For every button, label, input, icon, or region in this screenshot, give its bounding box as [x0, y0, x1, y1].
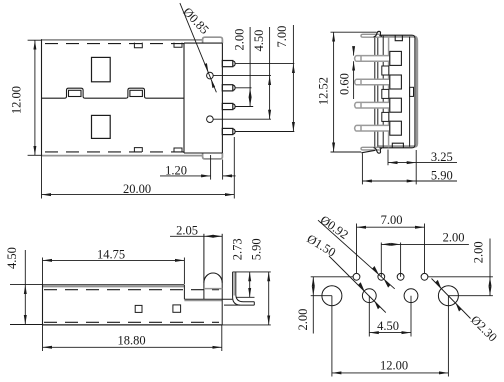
texts view1 [10, 5, 290, 196]
label 2.30 diameter [468, 313, 500, 345]
svg-text:4.50: 4.50 [5, 247, 19, 269]
label 4.50 [252, 30, 266, 52]
center seam line with spring latches [42, 88, 185, 98]
label 18.80 [117, 334, 145, 348]
dimension 5.90 [222, 272, 271, 325]
label 0.60 [337, 73, 351, 95]
body left edge [42, 285, 44, 325]
dimension 1.20 [160, 155, 236, 180]
label 2.00 right [472, 241, 486, 263]
leader 1.50 [329, 256, 386, 313]
dimensions of view 4 [311, 220, 493, 376]
peg hole lower [207, 116, 214, 123]
plastic base right edge [221, 43, 223, 153]
bottom flange folded tab [361, 147, 382, 153]
label 4.50 [5, 247, 19, 269]
label 1.50 diameter [304, 232, 338, 260]
contact 3 [355, 98, 402, 112]
plastic base bottom edge [184, 152, 222, 154]
dimension 2.00 middle [381, 243, 469, 277]
label 5.90 [431, 169, 453, 183]
bent solder pin [224, 272, 254, 305]
peg with dome top [204, 234, 222, 325]
peg hole upper [207, 72, 214, 79]
label 1.20 [165, 163, 187, 177]
dimension 2.00 right [249, 27, 251, 107]
shell top edge [42, 39, 203, 41]
label 14.75 [97, 248, 125, 262]
dimension 18.80 [43, 325, 222, 351]
dimensions of view 3 [10, 236, 271, 351]
svg-text:14.75: 14.75 [97, 248, 125, 262]
svg-text:7.00: 7.00 [381, 213, 403, 227]
small hole square 2 [173, 305, 181, 312]
svg-text:4.50: 4.50 [252, 30, 266, 52]
pad hole small 3 [397, 273, 404, 280]
hidden edge lower (dashed) [44, 321, 219, 323]
svg-text:7.00: 7.00 [275, 26, 289, 48]
pad hole small 1 [353, 273, 360, 280]
label 2.73 [231, 238, 245, 260]
top flange folded tab [361, 31, 382, 37]
label 0.92 diameter [318, 213, 351, 242]
svg-text:5.90: 5.90 [250, 238, 264, 260]
hole large 1 [322, 286, 342, 306]
top mounting tab [203, 37, 223, 43]
inner right wall [409, 37, 411, 147]
leader 2.30 [432, 279, 471, 319]
extension line pin1 [235, 63, 294, 65]
body outline black [378, 35, 415, 148]
svg-text:4.50: 4.50 [377, 319, 399, 333]
label 2.05 [176, 224, 198, 238]
small hole square 1 [135, 305, 142, 312]
dimension 2.73 [233, 272, 271, 298]
pad hole small 2 [378, 273, 385, 280]
label 12.52 [317, 77, 331, 105]
label 20.00 [123, 182, 151, 196]
bottom mounting tab [203, 153, 223, 159]
dimension 4.50 [10, 250, 43, 325]
pin 3 [222, 103, 235, 109]
label 2.00 middle [443, 231, 465, 245]
label 0.85 diameter [180, 5, 211, 37]
dimension 3.25 [388, 150, 457, 185]
bottom notch [392, 143, 403, 148]
dimension 12.00 [332, 296, 449, 377]
dimension 14.75 [43, 258, 185, 285]
svg-text:1.20: 1.20 [165, 163, 187, 177]
plastic base top edge [184, 42, 222, 44]
shell window hole lower [92, 115, 111, 138]
housing tooth 3 [382, 112, 389, 121]
dimension 0.60 [353, 47, 355, 99]
shell left edge [41, 39, 43, 156]
svg-text:3.25: 3.25 [431, 150, 453, 164]
body top edge [43, 285, 185, 287]
label 3.25 [431, 150, 453, 164]
dimension 2.05 [170, 235, 222, 237]
extension line hole1 [213, 75, 271, 77]
pin 4 [222, 128, 235, 134]
contact 1 [355, 51, 402, 65]
hidden edge bottom (dashed) [45, 151, 190, 153]
dimension 4.50 right [269, 27, 271, 119]
hole medium 1 [362, 289, 376, 303]
dimension 2.00 left [311, 277, 353, 334]
hidden edge upper (dashed) [44, 289, 219, 291]
label 7.00 [381, 213, 403, 227]
svg-text:2.00: 2.00 [232, 29, 246, 51]
svg-text:5.90: 5.90 [431, 169, 453, 183]
top notch 2 [174, 43, 182, 48]
extension line pin2 [235, 87, 251, 89]
svg-text:12.52: 12.52 [317, 77, 331, 105]
bottom notch 1 [134, 148, 142, 152]
label 2.00 left [296, 309, 310, 331]
texts view3 [5, 224, 264, 348]
right wall bump [410, 87, 414, 96]
pin 2 [222, 85, 235, 91]
extension line pin4 [235, 131, 294, 133]
top notch 1 [134, 43, 142, 48]
texts view4 [296, 213, 500, 373]
housing tooth 1 [382, 66, 389, 75]
dimensions of view 2 [331, 32, 458, 184]
bottom notch 2 [174, 148, 182, 152]
shell wall lines [375, 35, 389, 149]
top notch [395, 35, 402, 41]
label 5.90 [250, 238, 264, 260]
hole medium 2 [404, 289, 418, 303]
dimension 12.00 left [28, 40, 42, 155]
svg-text:2.00: 2.00 [296, 309, 310, 331]
svg-text:2.00: 2.00 [443, 231, 465, 245]
hole large 2 [438, 286, 458, 306]
svg-text:2.05: 2.05 [176, 224, 198, 238]
body bottom edge [43, 324, 222, 326]
dimension 5.90 [362, 153, 457, 184]
dimension 20.00 bottom [42, 137, 235, 199]
label 2.00 [232, 29, 246, 51]
svg-text:0.60: 0.60 [337, 73, 351, 95]
svg-text:12.00: 12.00 [10, 86, 24, 114]
shell bottom edge [42, 155, 203, 157]
svg-text:18.80: 18.80 [117, 334, 145, 348]
texts view2 [317, 73, 453, 183]
hidden edge top (dashed) [45, 43, 190, 45]
label 12.00 [380, 359, 408, 373]
svg-text:2.73: 2.73 [231, 238, 245, 260]
housing tooth 2 [382, 89, 389, 98]
label 7.00 [275, 26, 289, 48]
leader 0.92 [318, 220, 395, 289]
leader 0.85 [180, 3, 217, 92]
dimension 12.52 [331, 32, 377, 152]
contact 4 [355, 121, 402, 135]
dimension 4.50 [369, 296, 411, 337]
extension line hole2 [213, 118, 271, 120]
dimensions of view 1 [28, 3, 295, 198]
label 4.50 [377, 319, 399, 333]
dimension 7.00 right [292, 25, 294, 132]
svg-text:2.00: 2.00 [472, 241, 486, 263]
label 12.00 [10, 86, 24, 114]
shell window hole upper [92, 57, 111, 81]
contact 2 [355, 75, 402, 89]
body outline thick gray [378, 37, 417, 147]
dimension 7.00 [357, 224, 425, 274]
svg-text:12.00: 12.00 [380, 359, 408, 373]
extension line pin3 [235, 106, 253, 108]
shell/base boundary line [183, 43, 185, 153]
pad hole small 4 [421, 273, 428, 280]
svg-text:20.00: 20.00 [123, 182, 151, 196]
pin 1 [222, 61, 235, 67]
notch step [184, 285, 232, 301]
dimension 2.00 right [428, 239, 493, 296]
